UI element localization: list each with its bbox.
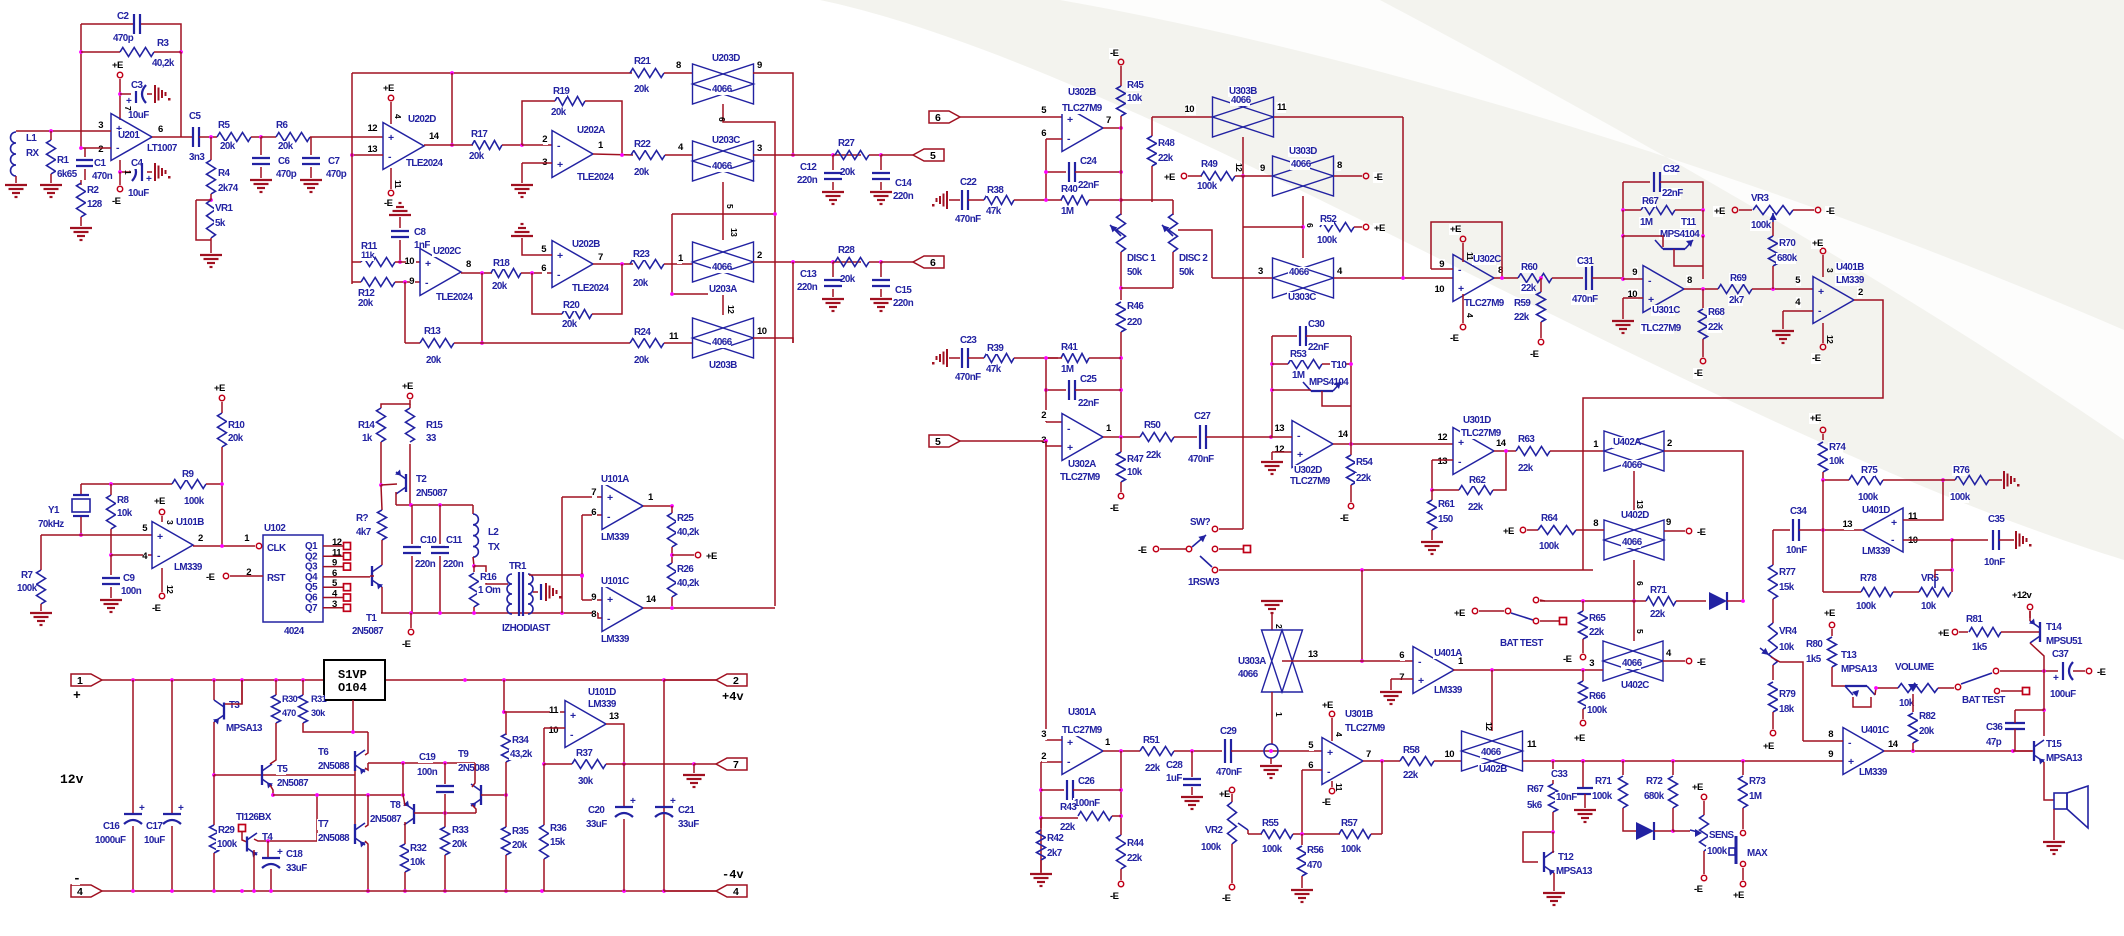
- svg-text:U203D: U203D: [712, 53, 740, 64]
- power -E: [1118, 881, 1123, 886]
- resistor R71d: [1646, 597, 1676, 606]
- wire: [1752, 288, 1813, 290]
- svg-text:R15: R15: [426, 420, 443, 431]
- wire: [365, 763, 368, 770]
- pin 9: [1829, 749, 1834, 760]
- svg-text:3: 3: [757, 143, 762, 154]
- pin11 wire U303B: [1152, 116, 1212, 118]
- pin 14: [1495, 438, 1505, 449]
- svg-text:C23: C23: [960, 335, 977, 346]
- node: [1950, 568, 1954, 572]
- svg-text:1k5: 1k5: [1972, 642, 1988, 653]
- pin 12: [1438, 432, 1448, 443]
- wire pin4: [111, 554, 152, 556]
- switch U303C: [1273, 258, 1334, 298]
- wire ctl12: [1242, 137, 1244, 176]
- svg-text:VR2: VR2: [1205, 825, 1224, 836]
- wire out: [1103, 750, 1140, 752]
- wire: [81, 23, 133, 25]
- capacitor C25: [1046, 389, 1066, 391]
- wire -in: [1783, 310, 1813, 312]
- pin 8: [1497, 265, 1502, 276]
- node: [580, 573, 584, 577]
- svg-text:+: +: [1327, 747, 1333, 759]
- svg-text:8: 8: [1593, 518, 1598, 529]
- resistor R35: [505, 795, 507, 827]
- svg-text:T14: T14: [2046, 622, 2062, 633]
- svg-text:U203B: U203B: [709, 360, 737, 371]
- pin 11: [1526, 739, 1536, 750]
- svg-text:1M: 1M: [1640, 217, 1653, 228]
- wire: [960, 440, 1046, 442]
- wire out: [1884, 750, 2032, 752]
- node: [2042, 669, 2046, 673]
- node: [1119, 170, 1123, 174]
- wire: [1822, 480, 1824, 530]
- svg-text:+: +: [1067, 114, 1073, 126]
- speaker: [2054, 793, 2067, 809]
- svg-text:5k6: 5k6: [1527, 800, 1543, 811]
- svg-text:R45: R45: [1127, 80, 1144, 91]
- node: [409, 611, 413, 615]
- node: [472, 564, 476, 568]
- resistor R73: [1742, 761, 1744, 775]
- pin 4: [1665, 648, 1670, 659]
- svg-text:C2: C2: [117, 11, 130, 22]
- svg-text:R80: R80: [1806, 639, 1823, 650]
- svg-text:20k: 20k: [634, 84, 650, 95]
- svg-text:12: 12: [368, 123, 378, 134]
- svg-text:R31: R31: [311, 694, 327, 704]
- resistor R50: [1140, 433, 1174, 442]
- svg-text:LM339: LM339: [1859, 767, 1888, 778]
- node: [1950, 538, 1954, 542]
- wire out loop: [1583, 300, 1883, 570]
- wire out: [1494, 277, 1518, 279]
- svg-text:+E: +E: [214, 383, 225, 394]
- main rail: [1523, 760, 1843, 762]
- wire out: [1494, 450, 1516, 452]
- capacitor C20: [623, 764, 625, 807]
- node: [622, 762, 626, 766]
- wire fb col: [481, 273, 483, 343]
- wire: [1334, 175, 1362, 177]
- node: [79, 533, 83, 537]
- svg-text:4066: 4066: [1291, 159, 1312, 170]
- wire out: [1334, 277, 1453, 279]
- svg-text:-E: -E: [1110, 503, 1119, 514]
- pin 2: [756, 250, 761, 261]
- svg-text:11: 11: [1465, 252, 1475, 261]
- pin 7: [1365, 749, 1370, 760]
- pin Q4: [304, 572, 314, 583]
- pin 10: [756, 326, 766, 337]
- power -E: [1118, 493, 1123, 498]
- svg-text:1: 1: [1106, 423, 1112, 434]
- resistor R2: [80, 180, 82, 185]
- svg-text:100uF: 100uF: [2050, 689, 2076, 700]
- wire: [1219, 548, 1243, 550]
- svg-text:-: -: [1067, 423, 1071, 435]
- pin 2: [1666, 438, 1671, 449]
- power -E: [1686, 658, 1691, 663]
- svg-text:U402A: U402A: [1613, 437, 1641, 448]
- pin 6: [1400, 650, 1405, 661]
- svg-text:7: 7: [591, 487, 596, 498]
- pot VR1: [210, 194, 212, 200]
- svg-text:CLK: CLK: [267, 543, 286, 554]
- wire x1243: [1242, 176, 1244, 529]
- op-amp U202A: [552, 131, 593, 178]
- wire: [1160, 548, 1186, 550]
- svg-text:-: -: [1067, 133, 1071, 145]
- op-amp U202B: [552, 241, 593, 288]
- svg-text:R64: R64: [1541, 513, 1558, 524]
- wire -in: [1432, 459, 1453, 461]
- node: [463, 678, 467, 682]
- wire gnd stub: [1271, 452, 1273, 460]
- transistor T2: [405, 474, 407, 492]
- svg-text:2: 2: [733, 675, 739, 687]
- resistor R12: [352, 281, 361, 283]
- pin 2: [1042, 751, 1047, 762]
- svg-text:20k: 20k: [840, 167, 856, 178]
- ground: [154, 163, 156, 181]
- capacitor C32: [1622, 182, 1624, 210]
- capacitor C17: [171, 680, 173, 814]
- VOL wiper: [1908, 684, 1918, 692]
- wire -in: [1041, 761, 1062, 763]
- wire: [1231, 750, 1322, 752]
- power -E: [1700, 358, 1705, 363]
- svg-text:R70: R70: [1779, 238, 1796, 249]
- wire -in: [1046, 421, 1062, 423]
- svg-text:4: 4: [393, 114, 403, 119]
- pin 9: [1633, 267, 1638, 278]
- svg-text:680k: 680k: [1777, 253, 1798, 264]
- svg-text:100nF: 100nF: [1074, 798, 1100, 809]
- wire: [381, 587, 383, 613]
- svg-text:U302C: U302C: [1473, 254, 1501, 265]
- wire: [881, 154, 913, 156]
- svg-text:C32: C32: [1663, 164, 1680, 175]
- svg-text:-E: -E: [1340, 513, 1349, 524]
- svg-text:C30: C30: [1308, 319, 1325, 330]
- switch U203B: [693, 318, 754, 358]
- svg-text:RST: RST: [267, 573, 286, 584]
- svg-text:11: 11: [669, 331, 679, 342]
- svg-text:C14: C14: [895, 178, 912, 189]
- svg-text:+: +: [557, 159, 563, 171]
- svg-text:+: +: [670, 796, 676, 807]
- svg-text:12: 12: [1275, 444, 1285, 455]
- wire sec: [529, 574, 582, 576]
- svg-text:100k: 100k: [17, 583, 38, 594]
- wire: [1434, 760, 1462, 762]
- op-amp U401B: [1813, 277, 1854, 324]
- connector 5: [913, 149, 944, 161]
- svg-text:TLE2024: TLE2024: [406, 158, 444, 169]
- resistor R16: [473, 566, 475, 572]
- power +E: [1181, 173, 1186, 178]
- wire: [1553, 873, 1555, 891]
- svg-text:+: +: [570, 710, 576, 722]
- resistor R72: [1672, 761, 1674, 775]
- svg-text:14: 14: [429, 131, 440, 142]
- resistor R6: [261, 136, 276, 138]
- svg-text:470: 470: [1307, 860, 1323, 871]
- svg-text:+E: +E: [1938, 628, 1949, 639]
- svg-text:128: 128: [87, 199, 103, 210]
- svg-text:10uF: 10uF: [128, 188, 149, 199]
- svg-text:10k: 10k: [1921, 601, 1937, 612]
- svg-text:470nF: 470nF: [1216, 767, 1242, 778]
- svg-text:R10: R10: [228, 420, 245, 431]
- wire: [2043, 671, 2045, 710]
- svg-text:+: +: [1067, 442, 1073, 454]
- wire: [472, 805, 476, 813]
- T13 loop: [1853, 697, 1871, 707]
- svg-text:+: +: [557, 250, 563, 262]
- svg-text:U401C: U401C: [1861, 725, 1889, 736]
- capacitor C13: [832, 262, 834, 277]
- resistor R49: [1188, 175, 1202, 177]
- resistor R80: [1831, 629, 1833, 636]
- power -E: [1363, 173, 1368, 178]
- svg-text:+: +: [607, 594, 613, 606]
- svg-text:1000uF: 1000uF: [95, 835, 126, 846]
- wire out: [1103, 436, 1140, 438]
- svg-text:U402D: U402D: [1621, 510, 1649, 521]
- svg-text:R67: R67: [1527, 784, 1544, 795]
- pin Q6: [304, 592, 314, 603]
- wire clk: [193, 545, 255, 547]
- wire: [1550, 450, 1604, 452]
- wire R13 col: [404, 282, 406, 343]
- resistor R7: [40, 535, 42, 570]
- connector 6: [913, 256, 944, 268]
- pot VR2: [1204, 825, 1219, 836]
- svg-text:-: -: [557, 269, 561, 281]
- svg-text:20k: 20k: [358, 298, 374, 309]
- svg-text:4066: 4066: [712, 262, 733, 273]
- svg-text:C7: C7: [328, 156, 341, 167]
- svg-text:L2: L2: [488, 527, 499, 538]
- wire: [474, 566, 508, 584]
- resistor R67b: [1641, 206, 1675, 215]
- svg-text:14: 14: [1338, 429, 1349, 440]
- svg-text:+E: +E: [1219, 789, 1230, 800]
- power -E: [1153, 546, 1158, 551]
- svg-text:3n3: 3n3: [189, 152, 205, 163]
- svg-text:C33: C33: [1551, 769, 1568, 780]
- node: [79, 146, 83, 150]
- node: [259, 135, 263, 139]
- switch U303D: [1273, 156, 1334, 196]
- svg-text:VR5: VR5: [1921, 573, 1940, 584]
- node: [1490, 668, 1494, 672]
- svg-text:470nF: 470nF: [955, 214, 981, 225]
- resistor R47: [1120, 437, 1122, 452]
- wire out pin6: [152, 136, 193, 138]
- node: [1269, 435, 1273, 439]
- resistor R48: [1151, 117, 1153, 136]
- svg-text:R13: R13: [424, 326, 441, 337]
- svg-text:C20: C20: [588, 805, 605, 816]
- svg-text:+E: +E: [112, 60, 123, 71]
- connector 7: [694, 763, 716, 765]
- svg-text:T10: T10: [1331, 360, 1347, 371]
- resistor R82: [1909, 713, 1918, 743]
- resistor R56: [1301, 834, 1303, 845]
- svg-text:4066: 4066: [1622, 460, 1643, 471]
- svg-text:C3: C3: [131, 80, 144, 91]
- svg-text:-E: -E: [1374, 172, 1383, 183]
- svg-text:20k: 20k: [634, 167, 650, 178]
- power +E: [1820, 248, 1825, 253]
- capacitor C19: [444, 763, 446, 784]
- pin 1: [647, 492, 652, 503]
- transistor T1: [371, 566, 373, 586]
- capacitor C6: [260, 137, 262, 155]
- svg-text:3: 3: [1041, 729, 1046, 740]
- svg-text:8: 8: [466, 259, 471, 270]
- svg-text:R81: R81: [1966, 614, 1983, 625]
- wire: [1350, 406, 1352, 444]
- wire +in: [1272, 451, 1292, 453]
- wire out: [424, 144, 473, 146]
- svg-text:U102: U102: [264, 523, 286, 534]
- svg-text:470nF: 470nF: [1572, 294, 1598, 305]
- wire: [672, 213, 775, 215]
- wire: [582, 599, 602, 601]
- svg-text:R57: R57: [1341, 818, 1358, 829]
- wire u101d+: [504, 711, 565, 713]
- node: [271, 793, 275, 797]
- svg-text:+4v: +4v: [722, 690, 744, 704]
- svg-text:680k: 680k: [1644, 791, 1665, 802]
- pin 11: [550, 705, 560, 716]
- svg-text:U101D: U101D: [588, 687, 616, 698]
- resistor R1: [50, 131, 52, 140]
- svg-text:47k: 47k: [986, 206, 1002, 217]
- resistor R62: [1432, 489, 1459, 491]
- resistor R58: [1400, 757, 1434, 766]
- node: [1430, 488, 1434, 492]
- power +E: [117, 72, 122, 77]
- wire: [2030, 643, 2044, 671]
- switch U402C: [1603, 641, 1663, 681]
- svg-text:8: 8: [1828, 729, 1833, 740]
- svg-text:2N5088: 2N5088: [458, 763, 490, 774]
- pin 7: [1400, 672, 1405, 683]
- svg-text:4066: 4066: [1481, 747, 1502, 758]
- pin 10: [406, 256, 416, 267]
- wire: [1045, 358, 1047, 422]
- node: [2042, 708, 2046, 712]
- svg-text:C27: C27: [1194, 411, 1211, 422]
- sw contact2: [1993, 668, 1998, 673]
- svg-text:1RSW3: 1RSW3: [1188, 577, 1220, 588]
- svg-text:220n: 220n: [893, 191, 914, 202]
- svg-text:100k: 100k: [1950, 492, 1971, 503]
- wire: [1402, 117, 1404, 278]
- svg-text:470p: 470p: [113, 33, 134, 44]
- label 12v: [59, 772, 82, 786]
- svg-text:1M: 1M: [1292, 370, 1305, 381]
- svg-text:T8: T8: [390, 800, 401, 811]
- ground: [40, 184, 62, 186]
- svg-text:33uF: 33uF: [586, 819, 607, 830]
- svg-text:-E: -E: [402, 639, 411, 650]
- node: [1300, 832, 1304, 836]
- svg-text:MPSA13: MPSA13: [2046, 753, 2083, 764]
- switch U402D: [1604, 520, 1664, 560]
- svg-text:U302A: U302A: [1068, 459, 1096, 470]
- node: [350, 153, 354, 157]
- svg-text:-: -: [1818, 305, 1822, 317]
- op-amp U401A: [1413, 647, 1454, 694]
- node: [831, 153, 835, 157]
- pin 5: [1309, 740, 1314, 751]
- wire: [1702, 236, 1704, 279]
- wire t5 base: [214, 774, 355, 776]
- svg-text:1 Om: 1 Om: [478, 585, 501, 596]
- svg-text:2N5087: 2N5087: [416, 488, 448, 499]
- svg-text:T7: T7: [318, 819, 329, 830]
- svg-text:100k: 100k: [184, 496, 205, 507]
- svg-text:2: 2: [542, 134, 547, 145]
- svg-text:C35: C35: [1988, 514, 2005, 525]
- svg-text:R59: R59: [1514, 298, 1531, 309]
- svg-text:33: 33: [426, 433, 437, 444]
- resistor R10: [219, 395, 224, 400]
- svg-text:15k: 15k: [550, 837, 566, 848]
- transistor T6: [354, 751, 356, 771]
- jack: [1264, 744, 1278, 758]
- wire: [869, 154, 881, 156]
- svg-text:7: 7: [1399, 672, 1404, 683]
- node: [1581, 599, 1585, 603]
- ground: [1261, 461, 1283, 463]
- svg-text:8: 8: [1687, 275, 1692, 286]
- svg-text:22nF: 22nF: [1078, 180, 1099, 191]
- wire +in: [1046, 736, 1062, 740]
- resistor R59: [1540, 278, 1542, 292]
- wire: [1822, 530, 1824, 592]
- wire -in: [1903, 539, 1952, 541]
- node: [620, 262, 624, 266]
- svg-text:4: 4: [1334, 732, 1344, 737]
- node: [49, 129, 53, 133]
- resistor R4: [210, 137, 212, 160]
- terminal: [1244, 546, 1251, 553]
- node: [1241, 174, 1245, 178]
- svg-text:DISC 1: DISC 1: [1127, 253, 1156, 264]
- pin 1: [677, 253, 682, 264]
- power -E: [1822, 323, 1824, 343]
- power +E: [1691, 782, 1701, 793]
- label T10: [1330, 360, 1345, 371]
- resistor R74: [1822, 434, 1824, 440]
- svg-text:1M: 1M: [1749, 791, 1762, 802]
- power +E: [407, 393, 412, 398]
- ground: [1574, 809, 1596, 811]
- svg-text:47k: 47k: [986, 364, 1002, 375]
- svg-text:-E: -E: [1697, 657, 1706, 668]
- svg-text:470p: 470p: [276, 169, 297, 180]
- wire: [1371, 833, 1382, 835]
